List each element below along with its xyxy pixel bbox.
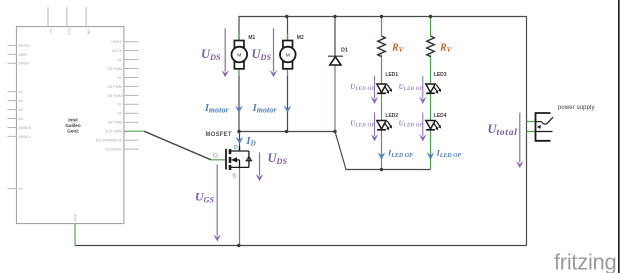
board top pins 5V 3V3 VIN: [48, 7, 86, 26]
svg-text:GND: GND: [74, 213, 78, 221]
svg-text:Galileo: Galileo: [65, 123, 81, 128]
svg-text:IOREF: IOREF: [19, 62, 31, 66]
svg-text:Gen2: Gen2: [67, 129, 79, 134]
LED4: [426, 121, 441, 131]
arrow I_motor M1: [236, 106, 243, 112]
wire LED branch 1 green: [381, 17, 383, 37]
wire ground rail: [75, 245, 527, 247]
svg-text:RESET: RESET: [19, 44, 32, 48]
MOSFET body arrow: [231, 157, 237, 162]
svg-text:M1: M1: [248, 35, 255, 41]
svg-text:D3 PWM: D3 PWM: [108, 67, 122, 71]
Intel Galileo Gen2 board U1: [16, 27, 124, 224]
arrow U_DS mosfet: [259, 153, 261, 176]
svg-text:D5 PWM: D5 PWM: [108, 85, 122, 89]
svg-text:A1: A1: [19, 99, 23, 103]
svg-text:A0: A0: [19, 90, 23, 94]
svg-text:D7: D7: [117, 103, 122, 107]
wire D1 top: [334, 17, 336, 56]
wire motor rail to drain: [239, 131, 335, 133]
svg-text:VIN: VIN: [86, 29, 90, 35]
svg-text:LED3: LED3: [434, 72, 447, 78]
svg-text:Intel: Intel: [68, 118, 77, 123]
svg-text:A5/SCL: A5/SCL: [19, 135, 31, 139]
svg-text:M: M: [237, 52, 241, 58]
wire GND drop from board: [74, 224, 76, 246]
MOSFET Q1: [226, 146, 252, 170]
wire M1 bottom: [238, 76, 240, 132]
arrow U_DS M2: [273, 28, 275, 71]
motor M1: [232, 34, 248, 69]
arrow U_total: [519, 113, 521, 163]
svg-text:D1/TX: D1/TX: [112, 49, 123, 53]
svg-text:MOSFET: MOSFET: [206, 132, 232, 138]
svg-text:D1: D1: [341, 47, 348, 53]
wire M2 top: [287, 17, 289, 41]
resistor RV2: [427, 36, 435, 57]
svg-text:fritzing: fritzing: [554, 250, 616, 273]
svg-text:5V: 5V: [48, 29, 52, 34]
wire D-pin stub green: [124, 130, 144, 132]
svg-text:D10 PWM: D10 PWM: [106, 130, 122, 134]
svg-text:AREF: AREF: [19, 53, 29, 57]
arrow U_LED_OP 2: [374, 113, 376, 136]
wire drain drop: [239, 132, 241, 152]
arrow I_LED_OP 1: [378, 153, 384, 160]
board right pins: [124, 42, 138, 149]
wire source green: [239, 167, 241, 245]
svg-text:LED4: LED4: [434, 113, 447, 119]
svg-text:3V3: 3V3: [67, 29, 71, 35]
arrow U_DS M1: [224, 28, 226, 71]
svg-text:D0/RX: D0/RX: [111, 40, 122, 44]
wire gate green: [211, 159, 225, 161]
motor M2: [280, 34, 296, 69]
wire jack stubs green: [527, 121, 537, 123]
arrow U_GS: [216, 165, 218, 236]
wire D1 bottom green: [334, 65, 336, 132]
power supply jack J1: [536, 113, 554, 141]
svg-text:D2: D2: [117, 58, 122, 62]
svg-text:A3: A3: [19, 117, 23, 121]
svg-text:G: G: [213, 153, 218, 160]
wire diagonal to LED rail: [335, 132, 431, 170]
svg-text:D4: D4: [117, 76, 122, 80]
arrow I_D: [236, 137, 243, 143]
svg-text:D9 PWM: D9 PWM: [108, 121, 122, 125]
LED2: [377, 121, 392, 131]
wire M2 bottom: [287, 76, 289, 132]
LED3: [426, 84, 441, 94]
svg-text:LED2: LED2: [385, 113, 398, 119]
svg-text:M2: M2: [297, 35, 304, 41]
diode D1: [328, 56, 343, 65]
arrow U_LED_OP 3: [422, 76, 424, 98]
svg-text:D8: D8: [117, 112, 122, 116]
board left pins: [8, 45, 17, 188]
arrow I_motor M2: [284, 106, 291, 112]
wire LED branch 2 green: [430, 17, 432, 37]
LED1: [377, 84, 392, 94]
svg-text:D: D: [234, 145, 238, 151]
svg-text:5V: 5V: [19, 187, 24, 191]
svg-text:D11 PWM/MOSI: D11 PWM/MOSI: [96, 139, 122, 143]
svg-text:M: M: [286, 52, 290, 58]
svg-text:D12/MISO: D12/MISO: [105, 148, 122, 152]
arrow I_LED_OP 2: [427, 153, 433, 160]
svg-text:S: S: [232, 174, 236, 180]
wire diagonal board to gate: [144, 131, 211, 160]
svg-text:A2: A2: [19, 108, 23, 112]
arrow U_LED_OP 1: [374, 76, 376, 98]
border right edge: [618, 0, 620, 273]
wire top rail: [239, 17, 527, 246]
resistor RV1: [378, 36, 386, 57]
svg-text:D6 PWM: D6 PWM: [108, 94, 122, 98]
svg-text:power supply: power supply: [558, 105, 595, 111]
svg-text:LED1: LED1: [385, 72, 398, 78]
svg-text:A4/SDA: A4/SDA: [19, 126, 32, 130]
arrow U_LED_OP 4: [422, 113, 424, 136]
